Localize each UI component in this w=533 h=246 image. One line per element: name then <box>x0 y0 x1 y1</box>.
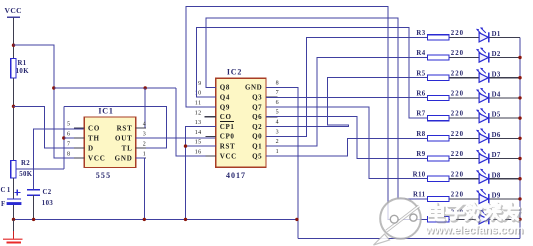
LED D3 <box>476 68 489 83</box>
svg-text:RST: RST <box>220 143 235 151</box>
svg-text:D5: D5 <box>492 112 501 119</box>
wire: R2 to C1 <box>13 178 15 199</box>
svg-text:GND: GND <box>115 154 133 162</box>
node: row7 bus junction <box>518 157 521 160</box>
wire: row6 resistor-LED-bus segments <box>449 137 479 139</box>
svg-text:220: 220 <box>451 131 464 138</box>
svg-text:2: 2 <box>276 139 279 145</box>
wire: IC2 pin2 Q1 up to row2 <box>266 58 428 147</box>
wire: bottom bus to LED return rail <box>298 237 520 239</box>
node: row2 bus junction <box>518 56 521 59</box>
resistor R11 220 <box>428 196 450 201</box>
svg-text:D3: D3 <box>492 71 501 78</box>
node: row8 bus junction <box>518 177 521 180</box>
watermark logo circle <box>374 198 421 245</box>
wire: IC2 pin5 Q6 down to row7 <box>266 117 428 159</box>
wire: row5 resistor-LED-bus segments <box>449 117 479 119</box>
LED D4 <box>476 88 489 103</box>
svg-text:5: 5 <box>276 110 279 116</box>
svg-text:10K: 10K <box>16 68 30 75</box>
svg-text:D9: D9 <box>492 193 501 200</box>
node: row5 bus junction <box>518 116 521 119</box>
node: IC1 gnd bus junction <box>143 218 146 221</box>
svg-text:D8: D8 <box>492 172 501 179</box>
node: TH junction <box>62 136 65 139</box>
svg-text:220: 220 <box>451 171 464 178</box>
wire: IC2 pin3 Q0 up to row1 <box>266 37 428 136</box>
wire: row4 resistor-LED-bus segments <box>449 97 479 99</box>
svg-text:Q9: Q9 <box>220 103 230 111</box>
svg-text:6: 6 <box>67 131 70 137</box>
node: C1 gnd junction <box>12 218 15 221</box>
node: RST gnd bus junction <box>184 218 187 221</box>
svg-text:14: 14 <box>195 130 202 136</box>
wire: C1 to ground bus <box>13 205 15 220</box>
svg-text:1: 1 <box>276 149 279 155</box>
wire: VCC bus to IC1 RST and IC2 VCC <box>54 87 176 89</box>
svg-text:220: 220 <box>451 30 464 37</box>
svg-text:R1: R1 <box>18 60 27 67</box>
svg-text:220: 220 <box>451 50 464 57</box>
wire: row9 resistor-LED-bus segments <box>449 198 479 200</box>
wire: IC2 pin13 CP1 and pin15 RST tied to ground bus <box>186 127 216 220</box>
IC2 pin stubs right <box>266 86 277 88</box>
svg-text:TL: TL <box>122 144 133 152</box>
timer IC1 (555) body <box>84 117 135 168</box>
wire: node A to IC1 pin7 D <box>14 106 85 148</box>
svg-text:VCC: VCC <box>88 154 106 162</box>
wire: VCC rail down to R1 <box>13 17 15 58</box>
svg-text:10: 10 <box>195 91 202 97</box>
wire: IC1 pin3 OUT to IC2 pin14 CP0 <box>136 137 216 139</box>
svg-text:Q0: Q0 <box>252 133 262 141</box>
resistor R2 <box>11 161 16 178</box>
LED D5 <box>476 108 489 123</box>
wire: C2 up to IC1 pin5 CV <box>34 129 85 190</box>
svg-text:Q7: Q7 <box>252 103 262 111</box>
svg-text:R6: R6 <box>416 91 425 98</box>
resistor R5 220 <box>428 75 450 80</box>
LED D6 <box>476 128 489 143</box>
svg-text:R11: R11 <box>413 192 426 199</box>
svg-text:CO: CO <box>88 124 100 132</box>
svg-text:103: 103 <box>42 200 54 207</box>
svg-text:11: 11 <box>195 101 202 107</box>
wire: IC1 pin1 GND down to bus <box>136 158 145 219</box>
capacitor C1 (electrolytic) <box>7 198 21 200</box>
svg-text:IC2: IC2 <box>227 67 242 76</box>
svg-text:12: 12 <box>195 110 202 116</box>
resistor R8 220 <box>428 136 450 141</box>
LED D1 <box>476 27 489 42</box>
svg-text:C2: C2 <box>43 189 52 196</box>
svg-text:D: D <box>88 144 94 152</box>
wire: TH/TR vertical riser <box>63 107 65 169</box>
svg-text:8: 8 <box>67 151 70 157</box>
LED D10 <box>476 209 489 224</box>
svg-text:4017: 4017 <box>226 171 246 180</box>
svg-text:220: 220 <box>451 91 464 98</box>
svg-text:RST: RST <box>117 124 133 132</box>
svg-text:50K: 50K <box>19 171 33 178</box>
svg-text:220: 220 <box>451 111 464 118</box>
wire: loop Q9 pin11 over top to row10 <box>186 7 427 220</box>
wire: IC2 pin1 Q5 up to row6 <box>266 138 428 156</box>
svg-text:3: 3 <box>276 129 279 135</box>
svg-text:220: 220 <box>451 70 464 77</box>
LED D2 <box>476 48 489 63</box>
wire: IC2 pin4 Q2 up to row3 (jogged) <box>266 78 428 127</box>
svg-text:5: 5 <box>67 121 70 127</box>
svg-text:220: 220 <box>451 151 464 158</box>
wire: IC2 pin8 GND down to bottom bus <box>266 87 298 238</box>
resistor R1 <box>11 58 16 78</box>
svg-text:D7: D7 <box>492 152 501 159</box>
svg-text:4: 4 <box>276 120 279 126</box>
overline on CP1 <box>220 121 234 123</box>
svg-text:Q2: Q2 <box>252 123 262 131</box>
svg-text:F: F <box>1 201 6 208</box>
svg-text:R3: R3 <box>416 30 425 37</box>
IC2 pin stubs left <box>206 86 216 88</box>
svg-text:D4: D4 <box>492 92 501 99</box>
node: gnd bus T junction <box>295 218 298 221</box>
svg-text:Q3: Q3 <box>252 94 262 102</box>
LED D9 <box>476 189 489 204</box>
IC1 pin stubs right <box>136 127 146 129</box>
wire: R2 tap to TH/TR net <box>16 168 64 170</box>
IC1 pin stubs left <box>74 127 84 129</box>
resistor R3 220 <box>428 35 450 40</box>
wire: VCC down to IC1 pin4 RST <box>144 88 146 128</box>
node A: R1/R2/DIS junction <box>12 105 15 108</box>
svg-text:7: 7 <box>276 90 279 96</box>
svg-text:13: 13 <box>195 120 202 126</box>
resistor R9 220 <box>428 156 450 161</box>
svg-text:555: 555 <box>96 171 112 180</box>
svg-text:CP1: CP1 <box>220 123 235 131</box>
svg-text:3: 3 <box>143 132 146 138</box>
counter IC2 (4017) body <box>216 78 266 167</box>
wire: row10 resistor-LED-bus segments <box>449 218 479 220</box>
svg-text:2: 2 <box>143 142 146 148</box>
svg-text:D1: D1 <box>492 31 501 38</box>
svg-text:R4: R4 <box>416 50 425 57</box>
svg-text:TH: TH <box>88 134 100 142</box>
svg-text:CO: CO <box>220 113 232 121</box>
node: row3 bus junction <box>518 76 521 79</box>
wire: row2 resistor-LED-bus segments <box>449 57 479 59</box>
svg-text:VCC: VCC <box>5 6 22 15</box>
svg-text:R7: R7 <box>416 111 425 118</box>
node: row9 bus junction <box>518 197 521 200</box>
resistor R7 220 <box>428 116 450 121</box>
node: row10 bus junction <box>518 218 521 221</box>
svg-text:Q1: Q1 <box>252 143 262 151</box>
wire: R1 to node A rail <box>13 78 15 161</box>
svg-text:8: 8 <box>276 80 279 86</box>
node: VCC/R1 junction <box>12 44 15 47</box>
svg-text:220: 220 <box>451 192 464 199</box>
wire: VCC branch to 555 pin8 and pin4 rail <box>14 45 85 158</box>
svg-text:VCC: VCC <box>220 152 237 160</box>
svg-text:CP0: CP0 <box>220 133 235 141</box>
svg-text:R2: R2 <box>21 160 30 167</box>
svg-text:Q5: Q5 <box>252 152 262 160</box>
wire: IC2 pin12 CO stub (unconnected) <box>205 116 216 118</box>
svg-text:1: 1 <box>143 152 146 158</box>
resistor R10 220 <box>428 176 450 181</box>
node: row4 bus junction <box>518 96 521 99</box>
node: row6 bus junction <box>518 137 521 140</box>
svg-text:D2: D2 <box>492 51 501 58</box>
ground symbol <box>13 219 15 231</box>
svg-text:IC1: IC1 <box>98 107 113 116</box>
svg-text:R8: R8 <box>416 131 425 138</box>
wire: row8 resistor-LED-bus segments <box>449 178 479 180</box>
svg-text:Q8: Q8 <box>220 84 230 92</box>
resistor R12 220 <box>428 217 450 222</box>
svg-text:15: 15 <box>195 140 202 146</box>
wire: C2 down to ground bus <box>33 195 35 219</box>
svg-text:4: 4 <box>143 122 146 128</box>
svg-text:9: 9 <box>198 81 201 87</box>
wire: ground bus left section <box>14 218 297 220</box>
svg-text:R9: R9 <box>416 151 425 158</box>
node: C2 gnd junction <box>32 218 35 221</box>
wire: TR loop over IC1 to pin2 <box>64 107 167 148</box>
wire: to IC1 pin6 TH <box>64 137 85 139</box>
svg-text:6: 6 <box>276 100 279 106</box>
wire: row1 resistor-LED-bus segments <box>449 36 479 38</box>
wire: IC2 pin6 Q7 down to row8 <box>266 107 428 179</box>
wire: row3 resistor-LED-bus segments <box>449 77 479 79</box>
resistor R6 220 <box>428 95 450 100</box>
wire: loop Q8 pin9 over top to row9 <box>206 18 428 199</box>
LED D8 <box>476 169 489 184</box>
wire: LED return bus vertical <box>519 37 521 238</box>
node: VCC bus junction at x54 <box>52 86 55 89</box>
svg-text:R10: R10 <box>413 171 426 178</box>
watermark text dian zi fa shao you <box>430 204 520 222</box>
svg-text:7: 7 <box>67 141 70 147</box>
wire: loop Q4 pin10 over top to row5 <box>196 27 427 118</box>
svg-text:www.elecfans.com: www.elecfans.com <box>425 225 524 237</box>
svg-text:R5: R5 <box>416 70 425 77</box>
svg-text:16: 16 <box>195 150 202 156</box>
svg-text:D6: D6 <box>492 132 501 139</box>
wire: VCC down to IC2 pin16 <box>176 88 216 156</box>
wire: IC2 pin7 Q3 straight to row4 <box>266 97 428 99</box>
svg-text:OUT: OUT <box>115 134 133 142</box>
svg-text:C1: C1 <box>1 187 12 194</box>
LED D7 <box>476 149 489 164</box>
wire: row7 resistor-LED-bus segments <box>449 158 479 160</box>
resistor R4 220 <box>428 55 450 60</box>
node: CP1/RST junction <box>184 144 187 147</box>
svg-text:GND: GND <box>245 84 262 92</box>
capacitor C2 <box>27 189 40 191</box>
svg-text:Q6: Q6 <box>252 113 262 121</box>
svg-text:Q4: Q4 <box>220 94 230 102</box>
node: RST branch junction <box>144 86 147 89</box>
